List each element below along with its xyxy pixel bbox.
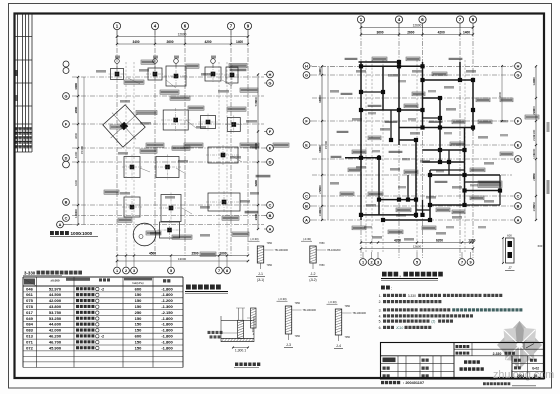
title block left signature grid — [381, 362, 455, 364]
svg-text:2950: 2950 — [532, 202, 536, 208]
svg-text:2800: 2800 — [74, 107, 78, 113]
svg-text:7B-100/200: 7B-100/200 — [303, 308, 317, 312]
wall stub above section — [237, 308, 239, 320]
svg-text:: 200401107: : 200401107 — [403, 381, 424, 385]
svg-text:C: C — [517, 194, 520, 198]
svg-text:(-0.30): (-0.30) — [250, 237, 258, 241]
svg-text:046: 046 — [26, 286, 33, 291]
svg-text:1.: 1. — [379, 294, 382, 298]
svg-text:4200: 4200 — [254, 180, 258, 186]
svg-text:7050: 7050 — [267, 242, 273, 245]
left plan: right vertical dimension chain — [257, 75, 259, 230]
svg-text:7050: 7050 — [345, 305, 351, 308]
svg-text:A: A — [517, 218, 520, 222]
svg-text:2400: 2400 — [254, 214, 258, 220]
right plan: extra columns — [359, 90, 363, 94]
svg-text:1000: 1000 — [219, 252, 226, 256]
caption under section — [235, 363, 238, 367]
svg-text:7B-100/200: 7B-100/200 — [327, 248, 341, 252]
svg-text:7050: 7050 — [267, 264, 273, 267]
svg-text:1000: 1000 — [82, 231, 93, 236]
certificate line below title block — [381, 381, 384, 384]
svg-text:061: 061 — [26, 292, 33, 297]
svg-text:A: A — [59, 223, 62, 227]
left plan: rotated square footing — [99, 101, 150, 152]
svg-text:-1.800: -1.800 — [161, 345, 173, 350]
svg-text:3600: 3600 — [376, 31, 383, 35]
svg-text:(-0.30): (-0.30) — [303, 237, 311, 241]
svg-text:13000: 13000 — [178, 257, 187, 261]
svg-text:-1.800: -1.800 — [161, 292, 173, 297]
svg-text:017: 017 — [26, 310, 33, 315]
institute name bottom right — [483, 382, 486, 385]
svg-text:4.: 4. — [379, 315, 382, 319]
svg-text:1: 1 — [116, 269, 118, 273]
svg-text:2600: 2600 — [166, 40, 173, 44]
right plan: extra pile vertical dashed lines — [365, 60, 367, 252]
left plan: bottom axis bubbles — [114, 267, 121, 274]
svg-text:(JL2): (JL2) — [309, 278, 316, 282]
svg-text:(2): (2) — [431, 320, 435, 324]
left plan: extra annotation smudges — [96, 70, 106, 73]
right plan: caption under plan — [382, 272, 387, 277]
svg-text:(-0.30): (-0.30) — [278, 297, 286, 301]
svg-text:E: E — [305, 143, 308, 147]
svg-text:3800: 3800 — [74, 133, 78, 139]
svg-text:3: 3 — [377, 260, 379, 264]
right plan: vertical grid lines — [360, 23, 362, 258]
svg-text:A: A — [305, 218, 308, 222]
svg-text:150: 150 — [135, 316, 142, 321]
left plan: footings — [111, 69, 124, 80]
svg-text:600: 600 — [135, 286, 142, 291]
notes header — [381, 286, 385, 290]
svg-text:±0.000: ±0.000 — [50, 279, 59, 283]
svg-text:-1.200: -1.200 — [161, 298, 173, 303]
svg-text:150: 150 — [135, 322, 142, 327]
svg-text:G: G — [65, 94, 68, 98]
svg-text:D: D — [65, 156, 68, 160]
drawing register strip table — [14, 14, 16, 153]
svg-text:4500: 4500 — [149, 252, 156, 256]
title block right info grid — [511, 356, 513, 379]
right plan: prominent boxed label right wing — [478, 181, 502, 188]
svg-text:G: G — [269, 81, 272, 85]
svg-text:fak(kPa): fak(kPa) — [132, 281, 143, 285]
svg-text:5600: 5600 — [254, 97, 258, 103]
left plan: right axis bubbles — [267, 71, 274, 78]
svg-text:4200: 4200 — [74, 151, 78, 158]
svg-text:3-330: 3-330 — [24, 271, 36, 276]
svg-text:8: 8 — [226, 269, 228, 273]
left plan: top axis bubbles 1 4 6 7 9 — [113, 22, 120, 29]
svg-text:53.250: 53.250 — [49, 316, 62, 321]
caption: foundation section plan — [186, 285, 191, 290]
svg-text:4200: 4200 — [74, 180, 78, 186]
svg-text:J-3: J-3 — [286, 343, 291, 347]
svg-text::: : — [391, 286, 392, 291]
svg-text:JC10: JC10 — [396, 326, 404, 330]
svg-text:7050: 7050 — [319, 264, 325, 267]
left plan: extra leader lines — [128, 78, 140, 84]
svg-text:G: G — [517, 73, 520, 77]
svg-text:-1.800: -1.800 — [161, 334, 173, 339]
svg-text:600: 600 — [538, 244, 543, 248]
svg-text:(JL1): (JL1) — [257, 278, 264, 282]
svg-text:5.: 5. — [379, 320, 382, 324]
svg-text:6.: 6. — [379, 326, 382, 330]
section detail labels — [208, 331, 211, 334]
svg-text:083: 083 — [26, 328, 33, 333]
tiny marks right margin — [547, 180, 550, 194]
title block top rows (owner / project) — [453, 343, 455, 380]
svg-text:600: 600 — [507, 234, 512, 238]
foundation schedule table — [24, 279, 35, 285]
svg-text:J7: J7 — [508, 266, 512, 270]
left plan: vertical grid lines — [116, 30, 118, 256]
svg-text:2.: 2. — [379, 300, 382, 304]
right plan: columns — [359, 64, 363, 68]
svg-text:E: E — [269, 146, 272, 150]
svg-text:150: 150 — [135, 298, 142, 303]
svg-text:4200: 4200 — [438, 31, 445, 35]
svg-text:250: 250 — [135, 310, 142, 315]
right plan: annotation labels — [345, 58, 358, 60]
right plan: right vertical dimension chain — [535, 66, 537, 220]
svg-text:7050: 7050 — [295, 335, 301, 338]
right plan: foundation beam network — [360, 62, 362, 220]
svg-text:53.750: 53.750 — [49, 310, 62, 315]
svg-text:J-4: J-4 — [336, 344, 341, 348]
svg-text:-2.150: -2.150 — [161, 310, 173, 315]
svg-text:43.800: 43.800 — [49, 304, 62, 309]
svg-text:1300: 1300 — [318, 69, 322, 75]
svg-text:(-0.30): (-0.30) — [328, 300, 336, 304]
svg-text:B: B — [269, 214, 272, 218]
right plan: right axis bubbles — [515, 63, 522, 70]
left plan: JL1000x1000 leader label — [50, 231, 54, 235]
svg-text:1900: 1900 — [318, 207, 322, 213]
svg-text:4200: 4200 — [204, 40, 211, 44]
svg-text:3: 3 — [133, 269, 135, 273]
svg-text:-1.300: -1.300 — [161, 304, 173, 309]
svg-text:2: 2 — [370, 260, 372, 264]
svg-text:5: 5 — [416, 260, 418, 264]
svg-text:B: B — [305, 204, 308, 208]
right plan: bottom dimension lines — [361, 242, 473, 244]
svg-text:-1.800: -1.800 — [161, 316, 173, 321]
svg-text:B: B — [65, 200, 68, 204]
svg-text:C: C — [305, 194, 308, 198]
svg-text:013: 013 — [26, 334, 33, 339]
title block centre drawing title — [486, 356, 488, 379]
right plan: top dimension lines — [361, 27, 473, 29]
svg-text:7050: 7050 — [319, 242, 325, 245]
svg-text:-1.800: -1.800 — [161, 286, 173, 291]
svg-text:1400: 1400 — [463, 31, 470, 35]
svg-text:2500: 2500 — [318, 185, 322, 191]
wall foundation section detail — [221, 319, 254, 321]
svg-text:12600: 12600 — [413, 245, 422, 249]
svg-text:2600: 2600 — [407, 31, 414, 35]
svg-text:078: 078 — [26, 304, 33, 309]
svg-text:7050: 7050 — [295, 302, 301, 305]
svg-text:44.600: 44.600 — [49, 322, 62, 327]
right plan: horizontal grid lines — [312, 65, 512, 67]
svg-text:42.000: 42.000 — [49, 298, 62, 303]
svg-text:075: 075 — [26, 298, 33, 303]
svg-text:J-2: J-2 — [311, 272, 316, 276]
svg-text:E: E — [517, 143, 520, 147]
svg-text:C: C — [269, 203, 272, 207]
svg-text:7: 7 — [218, 269, 220, 273]
svg-text:B: B — [517, 204, 520, 208]
svg-text:12600: 12600 — [178, 32, 187, 36]
svg-text:H: H — [517, 64, 520, 68]
svg-text:9: 9 — [469, 260, 471, 264]
svg-text:52.970: 52.970 — [49, 286, 62, 291]
svg-text:-1.800: -1.800 — [161, 322, 173, 327]
svg-text:4200: 4200 — [394, 239, 401, 243]
svg-text:1400: 1400 — [74, 209, 78, 215]
svg-text:-2: -2 — [101, 335, 104, 339]
svg-text:7: 7 — [461, 260, 463, 264]
watermark pinwheel logo — [497, 321, 542, 370]
svg-text:6200: 6200 — [436, 239, 443, 243]
svg-text:2900: 2900 — [532, 109, 536, 115]
svg-text:-1.800: -1.800 — [161, 339, 173, 344]
small detail J7 right of plan bottom — [506, 238, 515, 263]
svg-text:049: 049 — [26, 316, 33, 321]
svg-text:1200: 1200 — [532, 153, 536, 159]
svg-text:3400: 3400 — [132, 40, 139, 44]
partial detail at left edge of middle strip — [251, 308, 257, 328]
svg-text:G-02: G-02 — [532, 366, 539, 370]
left plan: pile marker circles above top footings — [115, 59, 120, 64]
svg-text:42.000: 42.000 — [49, 328, 62, 333]
svg-text:150: 150 — [135, 339, 142, 344]
right plan: extra beam segments — [361, 91, 383, 93]
svg-text:46.200: 46.200 — [49, 334, 62, 339]
title block outer — [381, 343, 545, 380]
svg-text:H: H — [269, 73, 272, 77]
right plan: extra leader marks — [398, 80, 406, 82]
svg-text:15400: 15400 — [80, 145, 84, 154]
svg-text:46.700: 46.700 — [49, 339, 62, 344]
svg-text:2500: 2500 — [191, 252, 198, 256]
svg-text:45.900: 45.900 — [49, 345, 62, 350]
svg-text:3-330: 3-330 — [408, 294, 416, 298]
svg-text:H: H — [305, 64, 308, 68]
svg-text:2004: 2004 — [517, 374, 524, 378]
svg-text:2850: 2850 — [532, 173, 536, 179]
right plan: bottom axis bubbles — [360, 259, 367, 266]
right plan: left axis bubbles — [303, 63, 310, 70]
svg-text:4800: 4800 — [318, 147, 322, 153]
svg-text:3200: 3200 — [532, 77, 536, 83]
left plan: left vertical dimension chain — [77, 77, 79, 225]
svg-text:C: C — [65, 216, 68, 220]
svg-text:4800: 4800 — [318, 97, 322, 103]
svg-text:600: 600 — [135, 334, 142, 339]
svg-text:7B-100/200: 7B-100/200 — [275, 248, 289, 252]
svg-text:3.: 3. — [379, 309, 382, 313]
left plan: left axis bubbles — [63, 61, 69, 67]
svg-text:1: 1 — [362, 260, 364, 264]
svg-text:D: D — [269, 160, 272, 164]
svg-text:1400: 1400 — [236, 40, 243, 44]
svg-text:2300: 2300 — [532, 135, 536, 141]
svg-text:12600: 12600 — [413, 23, 422, 27]
svg-text:150: 150 — [135, 304, 142, 309]
svg-text:071: 071 — [26, 339, 33, 344]
svg-text:15400: 15400 — [324, 140, 328, 149]
left plan: horizontal grid lines — [72, 76, 264, 78]
svg-text:44.500: 44.500 — [49, 292, 62, 297]
svg-text:3600: 3600 — [498, 92, 502, 98]
left plan: footing annotation labels — [124, 80, 144, 84]
svg-text:1600: 1600 — [74, 83, 78, 89]
svg-text:7050: 7050 — [345, 336, 351, 339]
right plan: extra annotation smudges — [356, 70, 366, 73]
svg-text:1,300.1: 1,300.1 — [235, 349, 246, 353]
svg-text:D: D — [517, 157, 520, 161]
right plan: right wing outline — [499, 175, 501, 205]
left plan: detail circle balloon — [133, 223, 156, 246]
svg-text:084: 084 — [26, 322, 33, 327]
svg-text:-1.800: -1.800 — [161, 328, 173, 333]
right plan: top axis bubbles — [357, 16, 364, 23]
svg-text:A: A — [269, 227, 272, 231]
svg-text:150: 150 — [135, 292, 142, 297]
svg-text:2-330: 2-330 — [493, 352, 502, 356]
left plan: bottom dimension lines — [117, 255, 248, 257]
svg-text:5: 5 — [170, 269, 172, 273]
svg-text:150: 150 — [135, 345, 142, 350]
left plan: bottom-left axis bubble A — [57, 221, 64, 228]
svg-text:7B-100/200: 7B-100/200 — [353, 311, 367, 315]
svg-text:-2: -2 — [101, 287, 104, 291]
svg-text:G: G — [305, 73, 308, 77]
left plan: secondary pile axis dashed lines — [125, 62, 127, 255]
svg-text:2: 2 — [125, 269, 127, 273]
svg-text:J-1: J-1 — [258, 272, 263, 276]
right plan: inner dim line near top-right — [501, 66, 503, 121]
svg-text:05: 05 — [534, 374, 538, 378]
svg-text:150: 150 — [135, 328, 142, 333]
svg-text:072: 072 — [26, 345, 33, 350]
svg-text:1300: 1300 — [468, 239, 475, 243]
left plan: top dimension lines — [117, 36, 248, 38]
right plan: left vertical dimension chain — [321, 66, 323, 220]
